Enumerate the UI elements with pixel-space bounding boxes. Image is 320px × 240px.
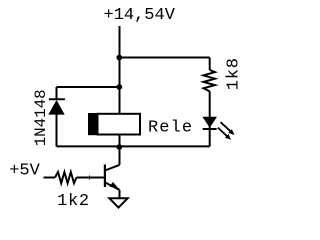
wire relay bottom to collector bbox=[119, 135, 121, 165]
svg-text:1N4148: 1N4148 bbox=[32, 89, 50, 146]
wire supply vertical rail bbox=[119, 26, 121, 114]
LED D2 bbox=[202, 117, 217, 128]
resistor R 1k2 bbox=[55, 172, 77, 183]
LED arrow 2 bbox=[218, 128, 227, 137]
transistor Q1 emitter arrow bbox=[110, 182, 119, 189]
junction dot supply-diode bbox=[116, 84, 122, 90]
ground symbol bbox=[109, 198, 127, 207]
diode D1 1N4148 cathode bar bbox=[49, 98, 65, 100]
wire resistor to base bbox=[77, 177, 104, 179]
wire right rail down to resistor bbox=[209, 58, 211, 71]
transistor Q1 base bar bbox=[104, 165, 106, 188]
wire left branch to diode bbox=[57, 86, 120, 88]
wire bottom horizontal bbox=[57, 145, 210, 147]
svg-text:1k8: 1k8 bbox=[225, 57, 244, 90]
relay K1 coil body bbox=[98, 114, 141, 135]
transistor Q1 emitter diagonal bbox=[105, 182, 120, 189]
resistor R 1k8 bbox=[204, 70, 215, 91]
wire diode top lead bbox=[56, 87, 58, 100]
wire diode bottom lead bbox=[56, 115, 58, 147]
svg-text:+14,54V: +14,54V bbox=[104, 6, 176, 25]
junction dot collector node bbox=[116, 144, 122, 150]
svg-text:1k2: 1k2 bbox=[57, 192, 90, 211]
LED arrow 1 bbox=[221, 122, 231, 131]
wire top branch to resistor bbox=[120, 57, 210, 59]
wire LED to bottom bbox=[209, 129, 211, 146]
wire emitter to ground bbox=[119, 190, 121, 198]
pin tick base wire bbox=[89, 176, 91, 180]
svg-text:Rele: Rele bbox=[148, 119, 193, 138]
junction dot supply-resistor bbox=[116, 55, 122, 61]
relay K1 coil black pad bbox=[88, 113, 98, 135]
transistor Q1 collector diagonal bbox=[105, 165, 120, 171]
svg-text:+5V: +5V bbox=[9, 162, 40, 181]
diode D1 triangle bbox=[48, 100, 64, 115]
wire resistor to LED bbox=[209, 91, 211, 128]
wire base input bbox=[44, 177, 56, 179]
